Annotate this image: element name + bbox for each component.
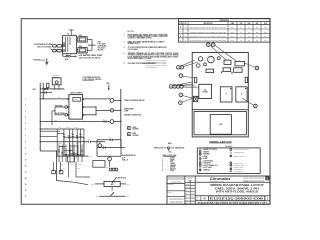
svg-text:B - B: B - B (122, 157, 125, 159)
svg-text:D: D (204, 197, 206, 201)
svg-text:12: 12 (25, 166, 27, 168)
svg-text:CONTROL: CONTROL (132, 135, 139, 137)
svg-text:HS: HS (227, 59, 229, 61)
svg-text:MJT: MJT (256, 31, 259, 33)
svg-text:15: 15 (25, 184, 27, 186)
svg-text:B: B (180, 36, 181, 38)
svg-text:16: 16 (25, 190, 27, 192)
svg-text:= JUNCTION BOX: = JUNCTION BOX (233, 168, 243, 170)
svg-text:BY: BY (185, 23, 187, 25)
svg-text:DL: DL (240, 36, 242, 38)
svg-text:BROWN: BROWN (170, 167, 175, 169)
svg-text:PB: PB (209, 71, 211, 73)
svg-text:LEVEL CONTROL: LEVEL CONTROL (70, 92, 83, 94)
svg-text:TB-2: TB-2 (96, 196, 99, 198)
svg-text:CB: CB (73, 34, 75, 36)
svg-text:CB: CB (71, 133, 73, 135)
svg-text:TB: TB (67, 34, 69, 36)
svg-text:120V, 1PH, 50/60HZ: 120V, 1PH, 50/60HZ (37, 46, 52, 48)
svg-text:11-97: 11-97 (264, 36, 267, 38)
svg-text:= CONTROL UNIT: = CONTROL UNIT (233, 171, 243, 173)
svg-text:13: 13 (25, 172, 27, 174)
svg-text:WITH ANTI-FLOOD, AMOCO: WITH ANTI-FLOOD, AMOCO (216, 190, 259, 194)
svg-text:= PRESSURE SWITCH: = PRESSURE SWITCH (233, 152, 245, 154)
svg-text:TB-1: TB-1 (91, 184, 94, 186)
svg-text:FINISH: FINISH (168, 192, 172, 194)
svg-text:ENG: ENG (248, 23, 251, 25)
svg-text:11-97: 11-97 (264, 27, 267, 29)
svg-text:5: 5 (25, 123, 26, 125)
svg-text:MJT: MJT (256, 27, 259, 29)
svg-text:10: 10 (25, 153, 27, 155)
svg-text:12: 12 (256, 68, 258, 70)
svg-text:2: 2 (25, 104, 26, 106)
svg-text:11: 11 (25, 160, 27, 162)
svg-text:TB: TB (106, 166, 108, 168)
svg-text:DL: DL (240, 31, 242, 33)
svg-text:CB: CB (75, 134, 77, 136)
svg-text:SEE NOTE #3: SEE NOTE #3 (118, 178, 127, 180)
svg-text:GROUND: GROUND (33, 60, 41, 62)
svg-text:8: 8 (25, 141, 26, 143)
svg-text:CUSTOMER SUPPLIED: CUSTOMER SUPPLIED (83, 77, 101, 79)
svg-text:11: 11 (212, 44, 214, 46)
svg-text:CB: CB (79, 133, 81, 135)
svg-text:1: 1 (25, 98, 26, 100)
svg-text:DESCRIPTION: DESCRIPTION (204, 23, 213, 25)
svg-text:TB-1: TB-1 (127, 184, 130, 186)
svg-text:ECN: ECN (264, 23, 267, 25)
svg-text:CB: CB (68, 134, 70, 136)
svg-text:ECG: ECG (169, 151, 172, 153)
svg-text:CHK: CHK (240, 23, 243, 25)
svg-text:CUSTOMER SUPPLIED: CUSTOMER SUPPLIED (34, 44, 52, 46)
svg-text:E131E131-300503-C08: E131E131-300503-C08 (210, 197, 263, 201)
svg-text:CODE WIRING: CODE WIRING (146, 67, 158, 69)
svg-text:220V: 220V (98, 42, 101, 44)
svg-text:HE-1: HE-1 (79, 35, 82, 37)
svg-text:= FUSE: = FUSE (203, 156, 208, 158)
svg-text:YELLOW: YELLOW (170, 168, 176, 170)
svg-text:PUMP: PUMP (124, 110, 128, 112)
svg-text:CONTROL: CONTROL (132, 129, 139, 131)
svg-text:CB-B: CB-B (77, 143, 80, 145)
svg-text:6: 6 (25, 129, 26, 131)
svg-text:11-97: 11-97 (264, 31, 267, 33)
svg-text:1 PH, 30KW: 1 PH, 30KW (98, 44, 107, 46)
svg-text:= PUSH BUTTON: = PUSH BUTTON (233, 162, 242, 164)
svg-text:7: 7 (25, 135, 26, 137)
svg-text:PUMP: PUMP (132, 133, 136, 135)
svg-text:WIRING VOLT: WIRING VOLT (128, 43, 140, 45)
svg-text:HTR-1: HTR-1 (71, 164, 74, 166)
svg-text:MJT: MJT (256, 36, 259, 38)
svg-text:SS: SS (239, 60, 241, 62)
svg-text:CONTRL: CONTRL (202, 92, 208, 94)
svg-text:LVL: LVL (204, 89, 207, 91)
svg-text:NOTES:: NOTES: (127, 31, 135, 33)
svg-text:9: 9 (25, 147, 26, 149)
svg-text:B: B (241, 94, 242, 96)
svg-text:TB-2: TB-2 (126, 196, 129, 198)
svg-text:MOV: MOV (33, 89, 36, 91)
svg-text:= TERM LUG: = TERM LUG (203, 170, 210, 172)
svg-text:WIRE COLOR: WIRE COLOR (154, 147, 163, 149)
svg-text:BLUE: BLUE (170, 170, 174, 172)
svg-text:10: 10 (208, 44, 210, 46)
svg-text:MJT: MJT (256, 40, 259, 42)
svg-text:FEED NEC NEC GROUND CONTROL: FEED NEC NEC GROUND CONTROL (146, 61, 167, 63)
svg-text:SYM: SYM (179, 23, 182, 25)
svg-text:Chromalox: Chromalox (210, 177, 231, 181)
svg-text:TB-B: TB-B (66, 127, 69, 129)
svg-text:HTR-2: HTR-2 (79, 164, 82, 166)
svg-text:3: 3 (25, 111, 26, 113)
svg-text:SIZE: SIZE (196, 197, 198, 199)
svg-text:LEVEL: LEVEL (132, 127, 137, 129)
svg-text:DL: DL (240, 40, 242, 42)
svg-text:B: B (98, 164, 99, 166)
svg-text:DL: DL (240, 27, 242, 29)
svg-text:VOLT CODES: VOLT CODES (128, 49, 138, 51)
svg-text:GREEN: GREEN (170, 163, 175, 165)
svg-text:RED: RED (170, 161, 173, 163)
svg-text:SUPPLIED: SUPPLIED (53, 76, 59, 78)
svg-text:= PILOT LIGHT: = PILOT LIGHT (203, 167, 213, 169)
svg-text:HE-2: HE-2 (79, 46, 82, 48)
svg-text:17: 17 (25, 196, 27, 198)
svg-text:13: 13 (255, 106, 257, 108)
svg-text:= CONTROL XFMR: = CONTROL XFMR (233, 166, 243, 168)
svg-text:T2-B: T2-B (78, 168, 81, 170)
svg-text:11-97: 11-97 (264, 40, 267, 42)
svg-text:WHITE: WHITE (170, 159, 174, 161)
